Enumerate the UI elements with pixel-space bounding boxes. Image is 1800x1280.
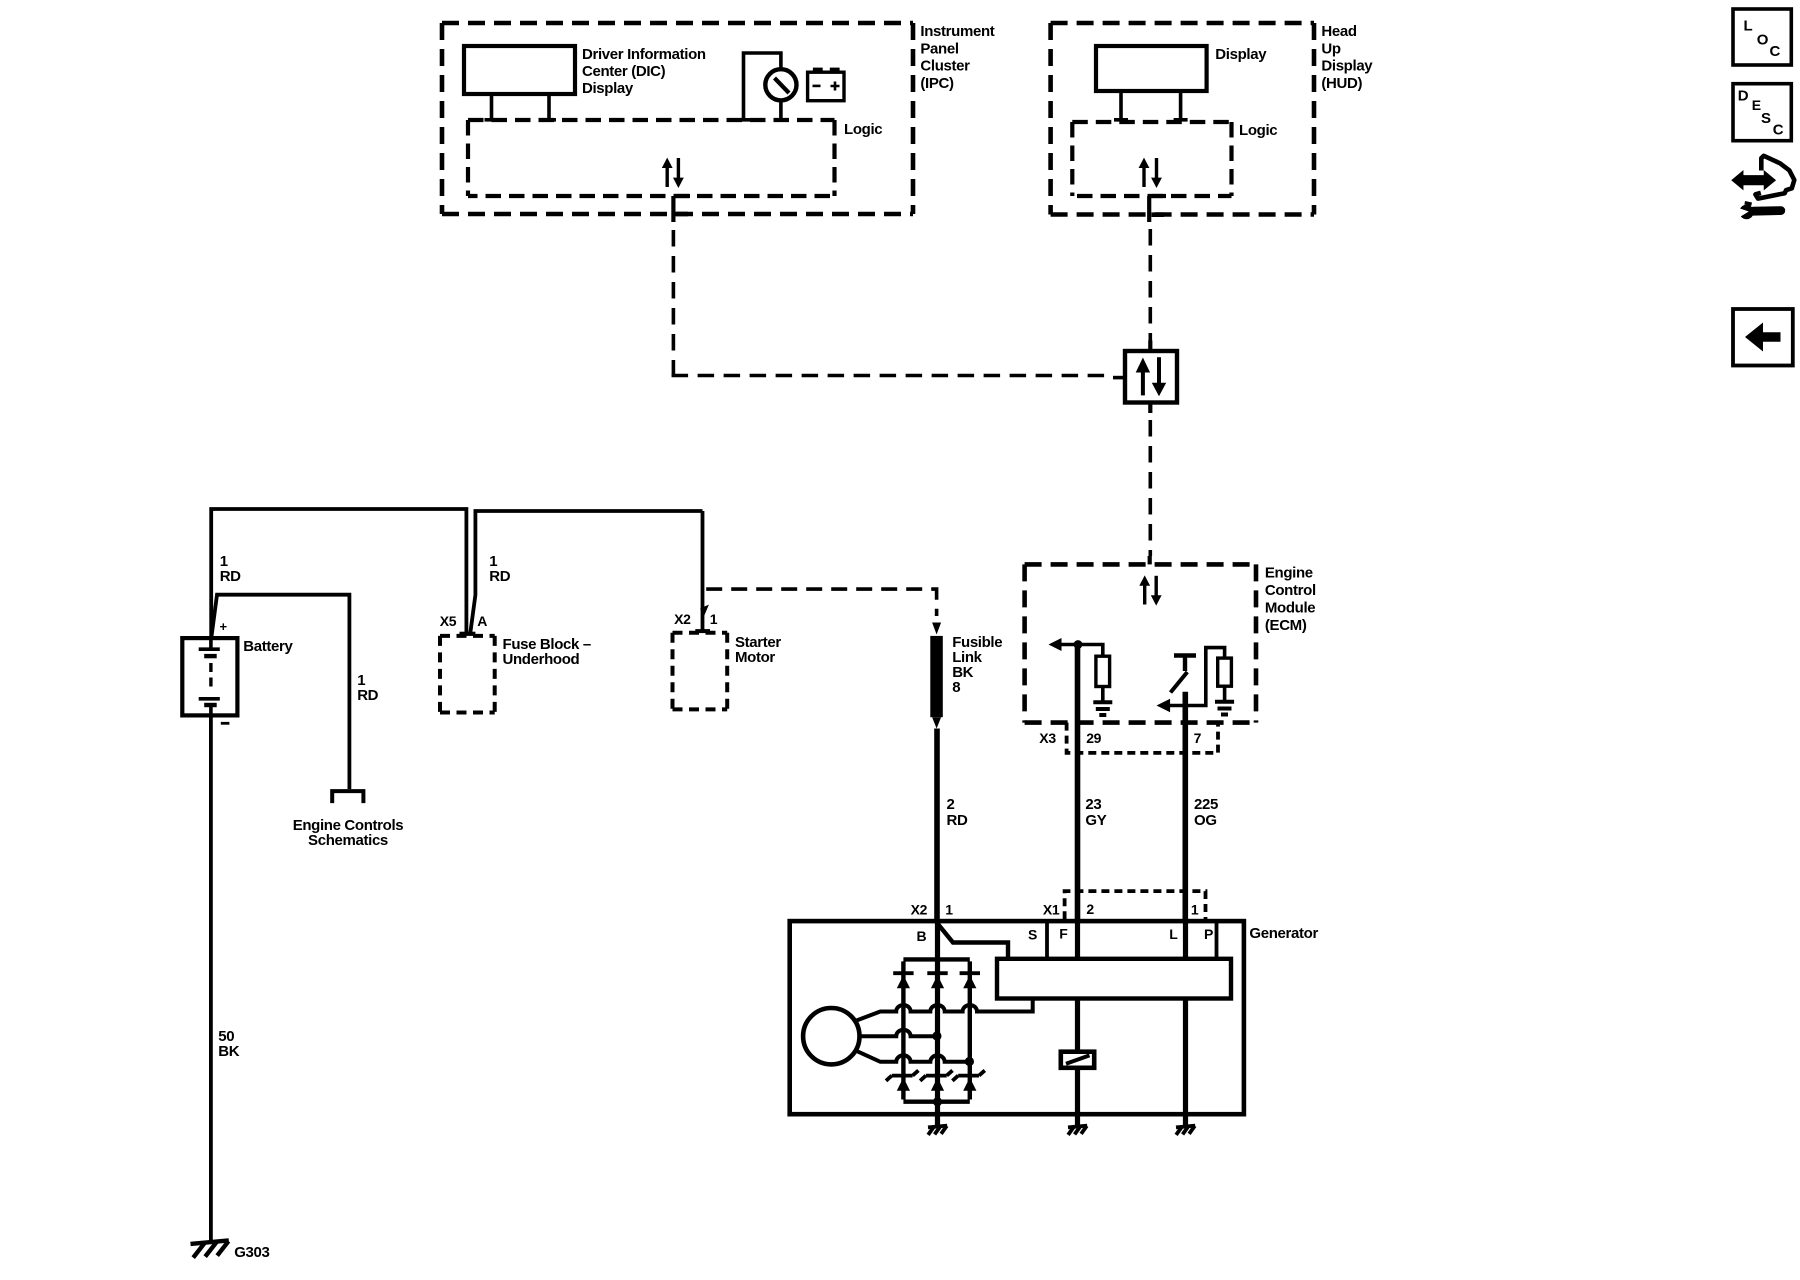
battery cell symbol bbox=[199, 638, 220, 715]
gateway down arrow bbox=[1157, 357, 1161, 383]
svg-text:RD: RD bbox=[220, 568, 241, 585]
wire: IPC serial data dashed horizontal bbox=[672, 374, 1113, 378]
wire crossing dash (IPC logic bottom) bbox=[676, 194, 691, 198]
wire: resistor R1 to ground bbox=[1101, 687, 1105, 702]
svg-text:L: L bbox=[1744, 18, 1753, 35]
wire: HUD serial data solid stub bbox=[1147, 196, 1151, 222]
svg-text:X1: X1 bbox=[1043, 902, 1060, 918]
dashed reference wire starter to fusible link bbox=[706, 589, 936, 616]
wire: generator B rectifier leg bbox=[935, 921, 940, 1127]
generator X1 connector dashed strip bbox=[1065, 891, 1206, 919]
battery box bbox=[182, 638, 237, 715]
back arrow bbox=[1745, 323, 1781, 352]
svg-text:GY: GY bbox=[1085, 812, 1106, 829]
svg-text:BK: BK bbox=[218, 1043, 239, 1060]
voltage regulator bar bbox=[997, 959, 1231, 999]
wire: generator ground F bbox=[1075, 1114, 1079, 1127]
svg-text:7: 7 bbox=[1194, 730, 1202, 746]
HUD display leg 2 bbox=[1174, 91, 1188, 120]
top diode 1 bbox=[893, 971, 913, 975]
svg-text:RD: RD bbox=[489, 568, 510, 585]
wire: lamp circuit below regulator bbox=[1183, 999, 1188, 1127]
svg-text:(IPC): (IPC) bbox=[920, 75, 954, 92]
LOC nav box bbox=[1733, 9, 1791, 65]
wire: ECM serial solid stub bbox=[1148, 556, 1152, 564]
svg-text:Logic: Logic bbox=[844, 121, 882, 138]
svg-text:E: E bbox=[1752, 97, 1761, 113]
IPC logic dashed box bbox=[468, 120, 835, 196]
ECM internal resistor R1 bbox=[1096, 656, 1110, 686]
IPC battery indicator icon body bbox=[808, 72, 844, 101]
DIC display box bbox=[464, 46, 575, 94]
fusible link lower arrowhead bbox=[932, 717, 941, 728]
ECM pin7 logic feedback arrow bbox=[1168, 704, 1185, 708]
svg-text:RD: RD bbox=[357, 687, 378, 704]
ECM pin29 pull-up branch wire bbox=[1078, 645, 1103, 657]
svg-text:(ECM): (ECM) bbox=[1265, 617, 1307, 634]
bridge bottom junction dot bbox=[933, 1097, 942, 1106]
svg-text:Instrument: Instrument bbox=[920, 23, 994, 40]
battery internal dashed line bbox=[209, 663, 212, 690]
DIC display leg 1 bbox=[485, 94, 499, 120]
stator phase line 1 bbox=[857, 999, 1033, 1021]
gateway up arrow bbox=[1141, 372, 1145, 395]
lower zener diode 3 bbox=[952, 1070, 984, 1080]
svg-text:Center (DIC): Center (DIC) bbox=[582, 63, 666, 80]
engine controls schematics reference symbol bbox=[332, 791, 363, 803]
svg-text:Module: Module bbox=[1265, 600, 1315, 617]
svg-text:S: S bbox=[1028, 927, 1037, 943]
svg-text:L: L bbox=[1169, 926, 1178, 942]
svg-text:Schematics: Schematics bbox=[308, 832, 388, 849]
wire: HUD serial data dashed vertical bbox=[1149, 229, 1153, 341]
svg-text:Driver Information: Driver Information bbox=[582, 46, 706, 63]
generator ground symbol 1 bbox=[928, 1126, 947, 1135]
generator box bbox=[790, 921, 1244, 1114]
svg-text:Motor: Motor bbox=[735, 649, 775, 666]
svg-text:P: P bbox=[1204, 926, 1213, 942]
wire: IPC serial data dashed vertical bbox=[672, 230, 676, 377]
stator line 2 junction dot bbox=[932, 1031, 941, 1040]
starter motor connector dashed box bbox=[673, 633, 728, 710]
ECM internal resistor R2 bbox=[1218, 658, 1232, 686]
gauge bottom wire bbox=[774, 102, 788, 120]
svg-text:1: 1 bbox=[1191, 902, 1199, 918]
svg-text:225: 225 bbox=[1194, 796, 1218, 813]
IPC serial data up arrow bbox=[666, 166, 669, 187]
svg-text:D: D bbox=[1738, 88, 1749, 105]
IPC gauge wire bbox=[737, 53, 781, 120]
gauge needle bbox=[775, 78, 790, 93]
label: minus terminal bbox=[221, 722, 230, 725]
wire: F terminal drop bbox=[1075, 921, 1080, 959]
field element box with slash bbox=[1061, 1052, 1094, 1068]
DIC display leg 2 bbox=[542, 94, 556, 120]
stator phase line 3 bbox=[857, 1051, 970, 1062]
svg-text:O: O bbox=[1757, 32, 1769, 49]
wire crossing dash (HUD box bottom) bbox=[1152, 212, 1165, 217]
svg-text:Display: Display bbox=[582, 80, 634, 97]
svg-text:Underhood: Underhood bbox=[503, 651, 580, 668]
wire: IPC serial data solid stub bbox=[671, 196, 675, 222]
svg-text:S: S bbox=[1761, 110, 1771, 127]
svg-text:Control: Control bbox=[1265, 582, 1316, 599]
svg-text:C: C bbox=[1773, 122, 1784, 139]
svg-text:Cluster: Cluster bbox=[920, 58, 970, 75]
wire: circuit 2 RD fusible link to generator B bbox=[934, 729, 940, 922]
wire: serial data dashed vertical to ECM bbox=[1149, 420, 1153, 556]
svg-text:Engine: Engine bbox=[1265, 565, 1313, 582]
battery icon terminal bumps bbox=[813, 68, 823, 73]
wire: generator ground B bbox=[935, 1114, 939, 1127]
ECM driver switch tee bar bbox=[1174, 656, 1196, 672]
ground G303 symbol bbox=[191, 1240, 229, 1257]
svg-text:Head: Head bbox=[1321, 23, 1356, 40]
ECM X3 connector dashed strip bbox=[1067, 723, 1218, 753]
wire: battery negative 50 BK bbox=[209, 715, 213, 1241]
battery icon minus sign bbox=[813, 85, 821, 88]
svg-text:+: + bbox=[220, 619, 228, 634]
stator line 3 junction dot bbox=[965, 1057, 974, 1066]
svg-text:2: 2 bbox=[947, 796, 955, 813]
ECM serial down arrow bbox=[1154, 576, 1157, 597]
lower zener diode 1 bbox=[886, 1070, 918, 1080]
svg-text:C: C bbox=[1770, 43, 1781, 60]
svg-text:Panel: Panel bbox=[920, 40, 958, 57]
lower zener diode 2 bbox=[920, 1070, 952, 1080]
ECM internal ground 2 bbox=[1215, 702, 1234, 715]
back arrow nav box bbox=[1733, 309, 1793, 366]
wire: L terminal drop bbox=[1183, 921, 1188, 959]
svg-text:X3: X3 bbox=[1039, 730, 1056, 746]
svg-text:X2: X2 bbox=[911, 902, 928, 918]
svg-text:B: B bbox=[917, 928, 927, 944]
instrument panel cluster (IPC) outer dashed box bbox=[442, 23, 913, 214]
svg-text:29: 29 bbox=[1086, 730, 1101, 746]
battery icon plus sign bbox=[831, 82, 840, 91]
wire: ECM pin 7 (GEN F monitor) bbox=[1183, 692, 1189, 921]
reference arrowhead at fusible link bbox=[932, 623, 941, 635]
svg-text:Display: Display bbox=[1215, 46, 1267, 63]
generator ground symbol 2 bbox=[1068, 1126, 1087, 1135]
svg-text:Display: Display bbox=[1321, 58, 1373, 75]
wire: B terminal to regulator bbox=[938, 924, 1009, 959]
rotor circle bbox=[803, 1008, 859, 1064]
svg-text:2: 2 bbox=[1086, 901, 1094, 917]
wire: fuse block feed to starter horizontal bbox=[470, 511, 702, 633]
fusible link BK 8 element bbox=[930, 636, 943, 717]
svg-text:1: 1 bbox=[945, 902, 953, 918]
wire: generator ground L bbox=[1183, 1114, 1187, 1127]
wire: serial data stub into gateway left bbox=[1113, 376, 1125, 380]
wire: ECM pin 29 (GEN L control) bbox=[1075, 645, 1081, 922]
svg-text:RD: RD bbox=[947, 812, 968, 829]
ECM internal ground 1 bbox=[1093, 702, 1112, 715]
svg-text:G303: G303 bbox=[234, 1244, 269, 1261]
rectifier bridge frame bbox=[903, 959, 969, 1101]
svg-text:23: 23 bbox=[1085, 796, 1101, 813]
ECM pin7 internal branch wire bbox=[1185, 648, 1224, 706]
svg-text:Logic: Logic bbox=[1239, 122, 1277, 139]
HUD serial data up arrow bbox=[1142, 166, 1145, 187]
svg-text:(HUD): (HUD) bbox=[1321, 75, 1362, 92]
engine control module (ECM) dashed box bbox=[1025, 564, 1256, 722]
svg-text:F: F bbox=[1059, 926, 1068, 942]
serial data gateway box bbox=[1125, 351, 1177, 403]
svg-text:Battery: Battery bbox=[243, 638, 293, 655]
ECM serial up arrow bbox=[1143, 584, 1146, 605]
svg-text:Up: Up bbox=[1321, 40, 1340, 57]
svg-text:A: A bbox=[477, 613, 487, 629]
svg-text:8: 8 bbox=[952, 679, 960, 696]
wire crossing dash (IPC box bottom) bbox=[676, 212, 689, 217]
terminal P stub bbox=[1215, 923, 1219, 959]
wire: field circuit below regulator bbox=[1075, 999, 1080, 1127]
wire crossing dash (HUD logic bottom) bbox=[1152, 194, 1167, 198]
svg-text:X2: X2 bbox=[674, 611, 691, 627]
schematic navigation icon: outline arrow bbox=[1755, 156, 1794, 199]
schematic navigation icon: wrench bbox=[1737, 201, 1781, 219]
HUD display leg 1 bbox=[1114, 91, 1128, 120]
fuse block pin entry tee bbox=[460, 632, 476, 636]
ECM pin29 junction dot bbox=[1074, 640, 1083, 649]
IPC gauge (voltmeter) bbox=[765, 69, 796, 100]
HUD serial data down arrow bbox=[1155, 158, 1158, 179]
ECM pin29 logic input arrow bbox=[1060, 643, 1078, 647]
schematic navigation icon: double-headed arrow bbox=[1732, 172, 1775, 189]
ECM driver switch arm bbox=[1171, 672, 1188, 693]
top diode 3 bbox=[960, 971, 980, 975]
starter pin entry tee bbox=[695, 629, 710, 633]
wire: gateway bottom solid stub bbox=[1148, 403, 1152, 414]
wire: battery positive feed horizontal bbox=[211, 509, 466, 638]
generator ground symbol 3 bbox=[1176, 1126, 1195, 1135]
wire: starter motor feed drop bbox=[701, 511, 705, 631]
reference arrowhead at starter bbox=[700, 605, 709, 620]
svg-text:X5: X5 bbox=[440, 613, 457, 629]
wire: gateway top solid stub bbox=[1148, 341, 1152, 352]
stator phase line 2 bbox=[858, 1030, 938, 1037]
svg-text:1: 1 bbox=[710, 611, 718, 627]
fuse block underhood connector dashed box bbox=[440, 636, 495, 713]
wire: engine controls branch with splice diagonal bbox=[212, 595, 350, 789]
HUD logic dashed box bbox=[1072, 122, 1231, 196]
svg-text:Generator: Generator bbox=[1249, 925, 1318, 942]
DESC nav box bbox=[1733, 84, 1791, 141]
svg-text:OG: OG bbox=[1194, 812, 1217, 829]
top diode 2 bbox=[927, 971, 947, 975]
terminal S stub bbox=[1045, 923, 1049, 959]
wire: resistor R2 to ground bbox=[1223, 686, 1227, 700]
head up display (HUD) outer dashed box bbox=[1051, 23, 1314, 215]
IPC serial data down arrow bbox=[677, 158, 680, 179]
HUD display box bbox=[1096, 46, 1207, 91]
